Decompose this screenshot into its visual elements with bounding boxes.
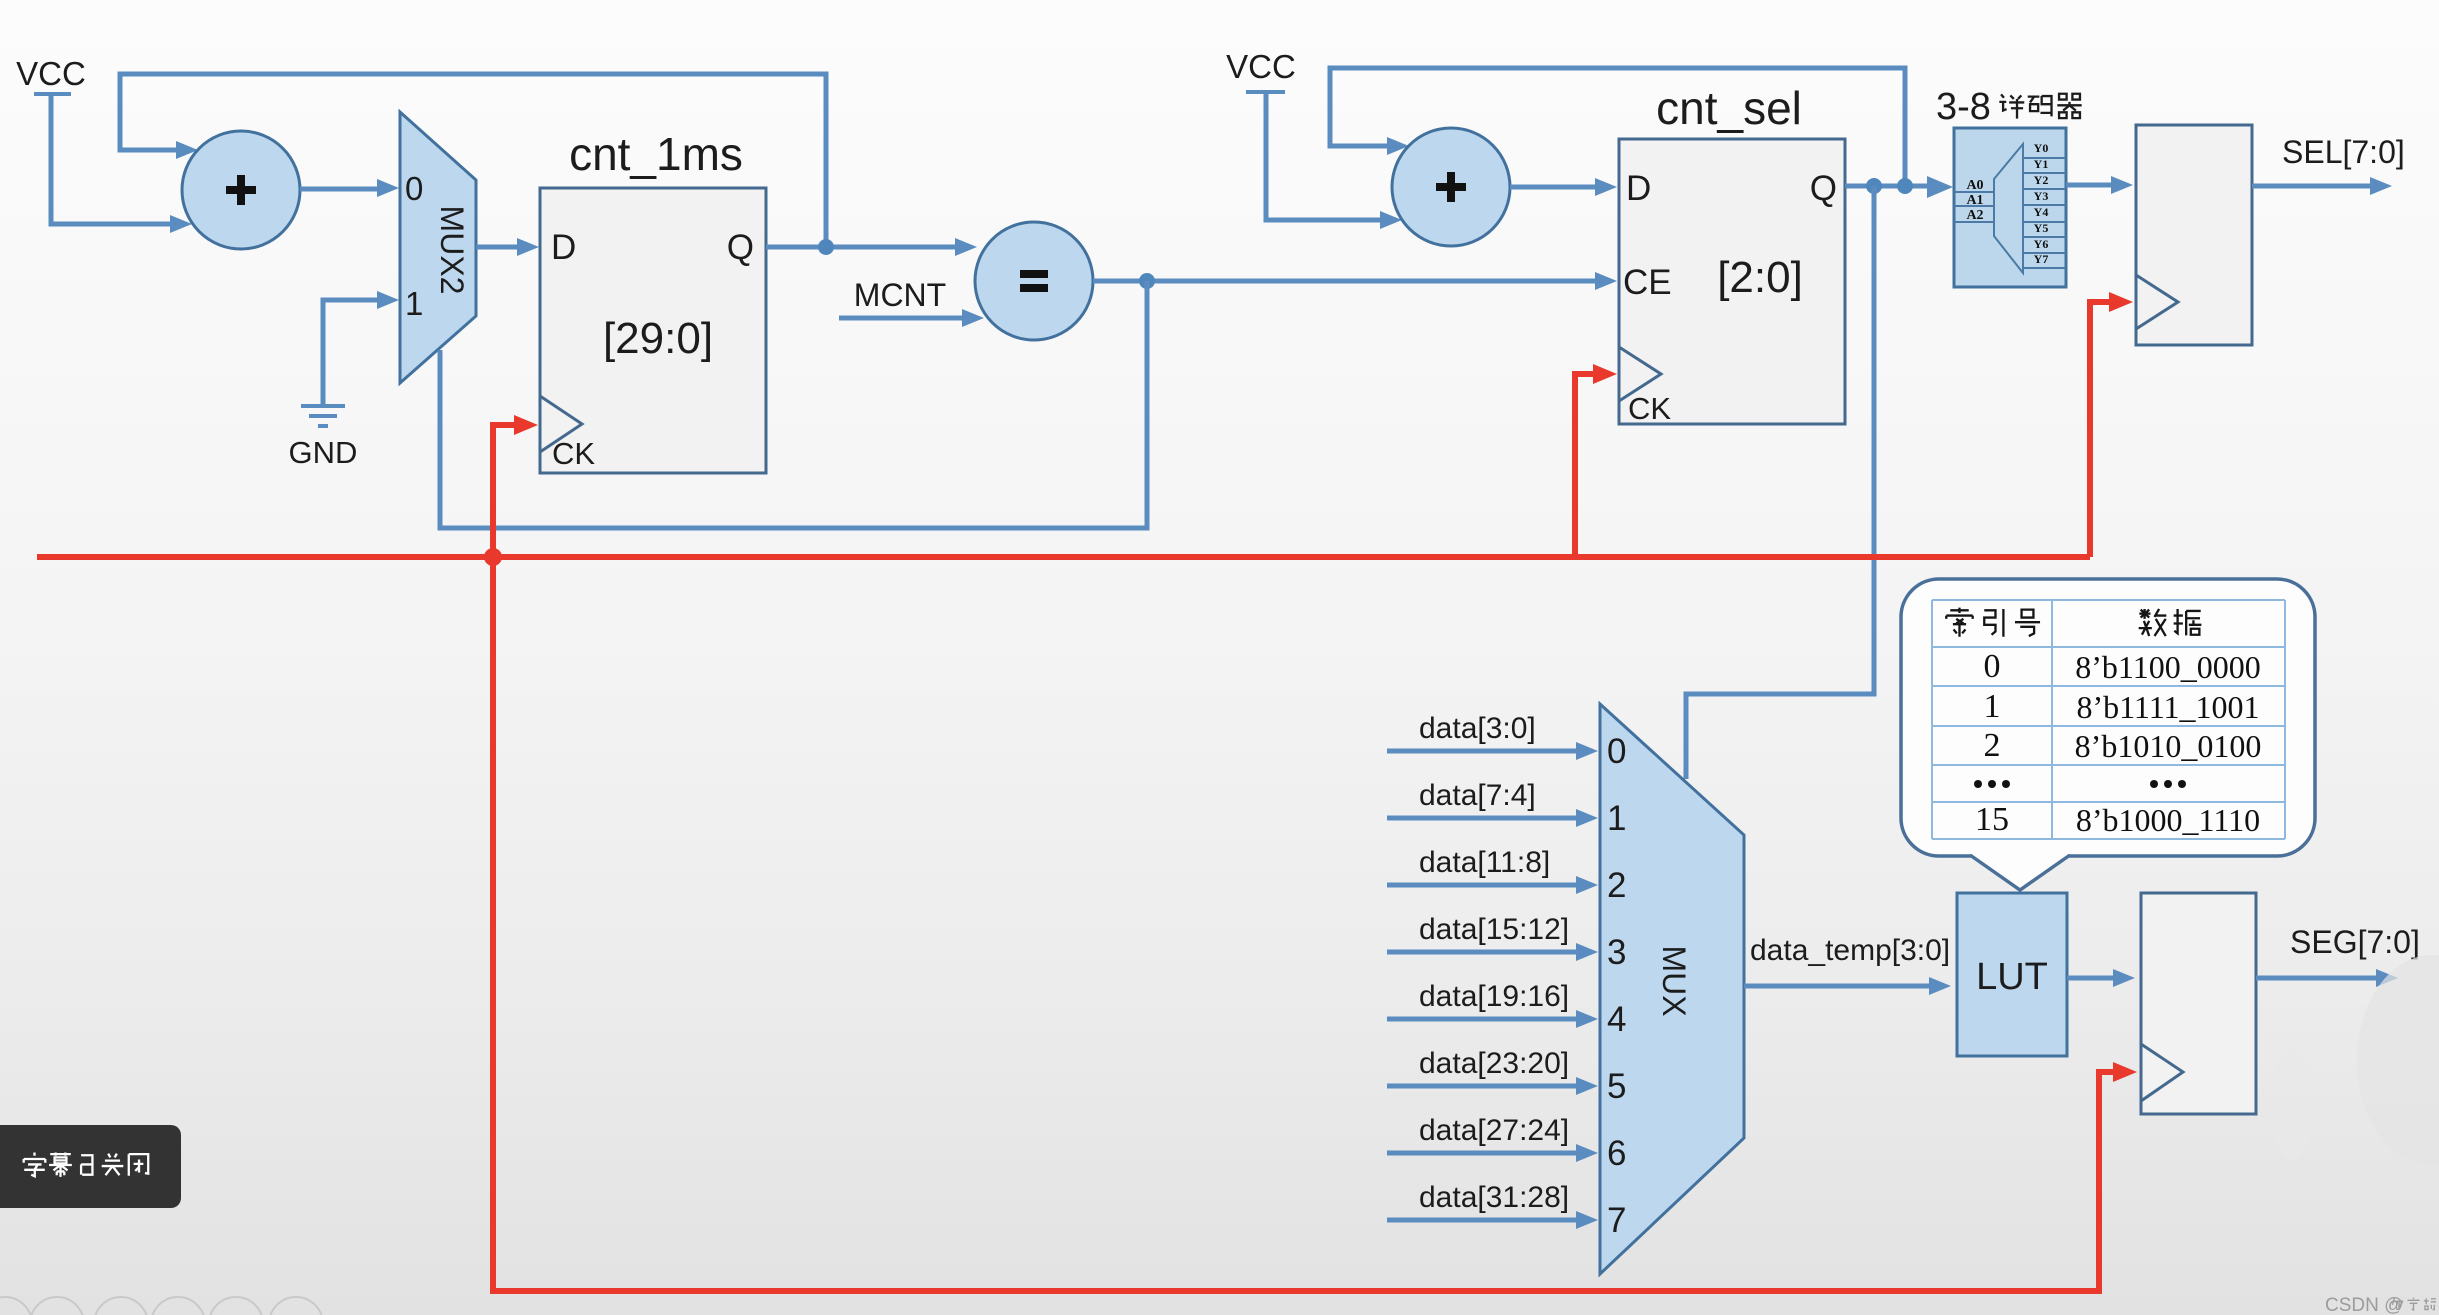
wire MUX2 output to cnt_1ms D xyxy=(476,245,521,250)
svg-text:data[7:4]: data[7:4] xyxy=(1419,779,1536,812)
svg-text:15: 15 xyxy=(1975,801,2009,838)
svg-text:MUX2: MUX2 xyxy=(434,206,470,295)
wire data[7:4] into MUX input 1 xyxy=(1387,816,1580,821)
svg-text:SEG[7:0]: SEG[7:0] xyxy=(2290,924,2420,960)
wire red branch to SEL register CK xyxy=(2090,302,2110,557)
wire VCC to adder A2 lower input xyxy=(1266,94,1384,220)
svg-text:[29:0]: [29:0] xyxy=(603,314,713,363)
svg-text:2: 2 xyxy=(1607,866,1626,905)
wire comparator result feedback to MUX2 select xyxy=(440,281,1147,528)
svg-text:cnt_1ms: cnt_1ms xyxy=(569,128,743,180)
svg-text:A0: A0 xyxy=(1966,178,1983,193)
wire SEG register output xyxy=(2256,976,2380,981)
callout bubble for LUT contents xyxy=(1901,579,2315,890)
svg-text:Y7: Y7 xyxy=(2034,252,2049,266)
label 译码器 (decoder title chinese) xyxy=(1999,94,2024,118)
wire red branch to cnt_1ms CK xyxy=(493,425,515,557)
svg-text:6: 6 xyxy=(1607,1134,1626,1173)
svg-text:Y0: Y0 xyxy=(2034,141,2049,155)
svg-text:Y6: Y6 xyxy=(2034,237,2049,251)
svg-text:CSDN @: CSDN @ xyxy=(2325,1295,2403,1315)
svg-text:0: 0 xyxy=(405,170,423,207)
table values column 数据 xyxy=(2075,649,2262,838)
svg-text:data[27:24]: data[27:24] xyxy=(1419,1114,1569,1147)
svg-text:1: 1 xyxy=(1607,799,1626,838)
wire data[27:24] into MUX input 6 xyxy=(1387,1151,1580,1156)
svg-text:VCC: VCC xyxy=(16,55,86,92)
svg-text:CK: CK xyxy=(1628,391,1671,426)
svg-text:0: 0 xyxy=(1984,648,2001,685)
svg-text:3: 3 xyxy=(1607,933,1626,972)
node junction on Q1 wire xyxy=(818,239,834,255)
svg-text:[2:0]: [2:0] xyxy=(1717,253,1803,302)
svg-text:SEL[7:0]: SEL[7:0] xyxy=(2282,134,2405,170)
node junction Q2 a xyxy=(1866,178,1882,194)
svg-text:5: 5 xyxy=(1607,1067,1626,1106)
svg-text:8’b1100_0000: 8’b1100_0000 xyxy=(2075,649,2260,685)
svg-text:3-8: 3-8 xyxy=(1936,86,1991,128)
svg-text:2: 2 xyxy=(1984,727,2001,764)
wire data[19:16] into MUX input 4 xyxy=(1387,1017,1580,1022)
table header 索引号 xyxy=(1946,608,1972,637)
svg-text:Y2: Y2 xyxy=(2034,173,2049,187)
register SEL output reg xyxy=(2136,125,2252,345)
svg-text:cnt_sel: cnt_sel xyxy=(1656,82,1802,134)
wire adder A2 to cnt_sel D xyxy=(1510,185,1599,190)
svg-text:Q: Q xyxy=(727,228,754,267)
table values column 索引号 xyxy=(1974,648,2010,838)
wire red bottom run to SEG register CK xyxy=(493,557,2114,1291)
decoder 3-8 block xyxy=(1936,86,2066,287)
wire red branch to cnt_sel CK xyxy=(1575,374,1594,557)
svg-text:data[11:8]: data[11:8] xyxy=(1419,846,1550,879)
svg-text:Y3: Y3 xyxy=(2034,189,2049,203)
mux MUX2 xyxy=(400,112,476,383)
svg-text:A2: A2 xyxy=(1966,208,1983,223)
table header 数据 xyxy=(2139,609,2167,636)
svg-text:1: 1 xyxy=(1984,688,2001,725)
wire SEL register output xyxy=(2252,184,2374,189)
wire MUX output data_temp to LUT xyxy=(1744,984,1933,989)
svg-text:MUX: MUX xyxy=(1656,945,1692,1016)
svg-text:8’b1000_1110: 8’b1000_1110 xyxy=(2076,802,2260,838)
node junction Q2 b xyxy=(1897,178,1913,194)
wire data[15:12] into MUX input 3 xyxy=(1387,950,1580,955)
svg-text:Y5: Y5 xyxy=(2034,221,2049,235)
wire cnt_1ms Q to comparator xyxy=(766,245,959,250)
table LUT contents grid xyxy=(1932,600,2285,839)
wire feedback Q2 to adder A2 upper input xyxy=(1330,68,1905,186)
svg-text:D: D xyxy=(1626,169,1651,208)
svg-text:LUT: LUT xyxy=(1976,956,2048,998)
comparator EQ xyxy=(975,222,1093,340)
svg-text:GND: GND xyxy=(289,435,358,470)
svg-text:7: 7 xyxy=(1607,1201,1626,1240)
register SEG output reg xyxy=(2141,893,2256,1114)
svg-text:Y4: Y4 xyxy=(2034,205,2049,219)
wire GND to MUX2 input 1 xyxy=(323,300,381,404)
node red junction xyxy=(484,548,502,566)
wire feedback Q1 to adder A1 upper input xyxy=(120,74,826,247)
svg-text:0: 0 xyxy=(1607,732,1626,771)
power symbol VCC (right) xyxy=(1226,48,1296,92)
wire LUT to SEG register xyxy=(2067,976,2117,981)
svg-text:data_temp[3:0]: data_temp[3:0] xyxy=(1750,934,1950,967)
node junction comparator output xyxy=(1139,273,1155,289)
wire adder A1 to MUX2 input 0 xyxy=(300,187,381,192)
wire data[31:28] into MUX input 7 xyxy=(1387,1218,1580,1223)
wire data[11:8] into MUX input 2 xyxy=(1387,883,1580,888)
ground GND xyxy=(289,406,358,470)
wire cnt_sel Q to decoder xyxy=(1845,184,1931,189)
svg-text:8’b1010_0100: 8’b1010_0100 xyxy=(2075,728,2262,764)
svg-text:VCC: VCC xyxy=(1226,48,1296,85)
wire cnt_sel Q down to big MUX select xyxy=(1686,186,1874,779)
player control circles (faint) xyxy=(0,1297,32,1315)
wire red clock main rail xyxy=(37,554,2090,560)
svg-text:D: D xyxy=(551,228,576,267)
caption box 字幕已关闭 xyxy=(0,1125,181,1208)
svg-text:CE: CE xyxy=(1623,263,1672,302)
svg-text:1: 1 xyxy=(405,285,423,322)
svg-text:data[3:0]: data[3:0] xyxy=(1419,712,1536,745)
mux MUX (8-to-1 data selector) xyxy=(1600,704,1744,1274)
svg-text:data[23:20]: data[23:20] xyxy=(1419,1047,1569,1080)
power symbol VCC (left) xyxy=(16,55,86,94)
adder A1 xyxy=(182,131,300,249)
register cnt_1ms xyxy=(540,128,766,473)
adder A2 xyxy=(1392,128,1510,246)
svg-text:Y1: Y1 xyxy=(2034,157,2049,171)
wire VCC to adder A1 lower input xyxy=(51,96,176,224)
svg-text:Q: Q xyxy=(1810,169,1837,208)
svg-text:4: 4 xyxy=(1607,1000,1626,1039)
wire data[23:20] into MUX input 5 xyxy=(1387,1084,1580,1089)
svg-text:data[31:28]: data[31:28] xyxy=(1419,1181,1569,1214)
svg-text:data[15:12]: data[15:12] xyxy=(1419,913,1569,946)
lookup table LUT xyxy=(1957,893,2067,1056)
wire comparator output to cnt_sel CE xyxy=(1093,279,1599,284)
register cnt_sel xyxy=(1619,82,1845,426)
svg-text:8’b1111_1001: 8’b1111_1001 xyxy=(2076,689,2259,725)
wire data[3:0] into MUX input 0 xyxy=(1387,749,1580,754)
wire MCNT to comparator lower input xyxy=(839,316,966,321)
faint blob right xyxy=(2357,955,2439,1165)
svg-text:CK: CK xyxy=(552,436,595,471)
svg-text:data[19:16]: data[19:16] xyxy=(1419,980,1569,1013)
svg-text:MCNT: MCNT xyxy=(854,277,946,313)
wire decoder to SEL register xyxy=(2066,183,2115,188)
svg-text:A1: A1 xyxy=(1966,193,1983,208)
